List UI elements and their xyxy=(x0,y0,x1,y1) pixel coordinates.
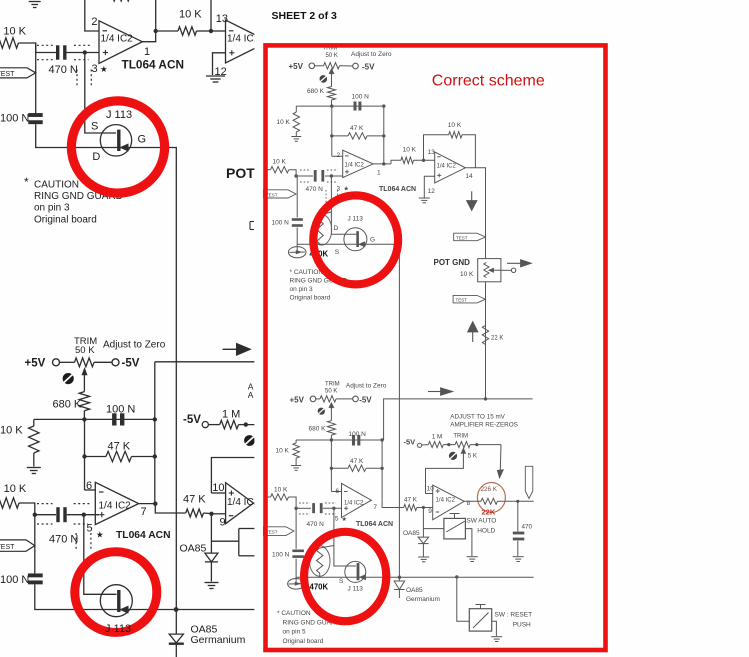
wire pot to -5V circle xyxy=(94,361,112,363)
svg-text:10: 10 xyxy=(212,482,224,494)
potentiometer 5K small xyxy=(455,442,470,448)
wire 5K wiper to pin10 small xyxy=(426,453,464,493)
wire chB line to trim net small xyxy=(384,399,533,440)
guard dotted chB small xyxy=(299,502,310,504)
red highlight circle chB JFET xyxy=(75,552,157,633)
guard ring dotted chA xyxy=(37,44,53,46)
terminal circle -5V chB xyxy=(112,359,119,366)
svg-text:TL064 ACN: TL064 ACN xyxy=(116,530,171,541)
svg-text:J 113: J 113 xyxy=(348,586,364,593)
red border of Correct scheme box xyxy=(266,45,606,650)
node input dot chB xyxy=(33,513,37,517)
node dot 47K left xyxy=(82,454,86,458)
transistor Q2 gate arrow xyxy=(121,606,128,613)
svg-text:22 K: 22 K xyxy=(491,336,503,342)
wire node to 10K gnd chB small xyxy=(295,440,297,443)
wire 470N to pin3 chA small xyxy=(325,175,343,177)
svg-text:* CAUTION: * CAUTION xyxy=(290,269,324,276)
transistor Q1 gate arrow xyxy=(121,144,128,151)
resistor 1M small xyxy=(428,442,443,448)
svg-text:Adjust to Zero: Adjust to Zero xyxy=(351,51,392,58)
wire diode to ground chB xyxy=(210,562,212,582)
transistor Q2 small bar xyxy=(357,563,360,580)
red highlight circle chA JFET small xyxy=(313,195,398,284)
svg-text:1/4 IC2: 1/4 IC2 xyxy=(101,34,134,45)
wire 1M to node xyxy=(239,424,264,426)
wire pin6 chB xyxy=(85,489,96,491)
minus pin6 small xyxy=(344,491,348,493)
minus pin13 small xyxy=(437,156,441,158)
svg-text:5: 5 xyxy=(87,523,93,535)
svg-text:470: 470 xyxy=(522,523,533,530)
op-amp U2c (1/4 IC2 pins 10,9,8) xyxy=(226,483,254,524)
svg-text:+5V: +5V xyxy=(25,358,46,370)
ground OA85 chB2 small xyxy=(418,556,429,558)
wire output U2d small xyxy=(465,168,485,399)
wire cap to pin3/op-amp xyxy=(67,52,100,54)
svg-text:100 N: 100 N xyxy=(0,113,29,125)
SW box top stem small xyxy=(454,514,456,519)
svg-text:1/4 IC2: 1/4 IC2 xyxy=(345,163,365,169)
plus pin12 small xyxy=(437,174,441,176)
resistor 470K chA small xyxy=(320,212,331,215)
svg-text:D: D xyxy=(92,151,100,163)
wire feedback loop U2d small xyxy=(424,135,449,161)
terminal circle +5V chB xyxy=(53,359,60,366)
transistor Q1 J113 channel bar xyxy=(117,130,120,151)
pot 5K wiper arrow small xyxy=(461,448,465,453)
capacitor 100N chA xyxy=(28,113,42,117)
wire 10K input to corner chB xyxy=(19,503,35,515)
svg-text:1/4 IC2: 1/4 IC2 xyxy=(437,164,457,170)
wire 680K to node chB small xyxy=(330,435,332,440)
resistor 47K feedback chB xyxy=(85,456,107,458)
svg-text:TL064 ACN: TL064 ACN xyxy=(122,58,185,72)
wire output jog down-right chB xyxy=(155,504,185,513)
resistor 10K series chA small xyxy=(401,157,414,163)
capacitor 470N chA xyxy=(56,45,59,59)
diode OA85 Germanium chB small xyxy=(398,577,400,581)
wire out vertical chA small xyxy=(383,106,385,164)
svg-text:*: * xyxy=(24,175,29,189)
svg-text:A: A xyxy=(248,390,254,400)
wire pin2 vertical + horizontal to op-amp U2a xyxy=(85,0,99,31)
svg-text:10 K: 10 K xyxy=(276,448,290,455)
wire input vertical chB small xyxy=(295,508,297,549)
capacitor 470N chB small xyxy=(312,503,315,513)
wire 470N to pin5 chB xyxy=(67,514,99,516)
plus pin5 small xyxy=(344,507,348,509)
svg-text:100 N: 100 N xyxy=(272,552,290,559)
svg-text:OA85: OA85 xyxy=(406,587,423,594)
wire output to 10K chA small xyxy=(373,163,391,165)
terminal circle -5V chA small xyxy=(353,63,359,69)
POT GND box small xyxy=(478,259,501,282)
op-amp U2b (1/4 IC2 pins 6,5,7) xyxy=(95,482,138,524)
node output dot chA small xyxy=(382,162,385,165)
node dot 47K right chA small xyxy=(382,134,385,137)
svg-text:TEST: TEST xyxy=(0,71,15,78)
svg-text:47 K: 47 K xyxy=(350,458,364,465)
node dot pin9 chB small xyxy=(422,506,425,509)
svg-text:6: 6 xyxy=(336,488,340,495)
wire pot out to circle small xyxy=(501,269,512,271)
svg-text:10 K: 10 K xyxy=(448,122,462,129)
TEST badge chB xyxy=(0,540,35,551)
ground 10K chA small xyxy=(291,136,301,138)
resistor 470K ellipse highlight chA small xyxy=(312,215,332,246)
switch SW RESET box small xyxy=(469,609,491,631)
pot wiper arrow chB small xyxy=(329,403,334,408)
minus sign pin13 xyxy=(229,30,234,32)
resistor 47K feedback chB small xyxy=(331,467,348,469)
resistor 680K chB small xyxy=(327,421,335,436)
node dot 470cap small xyxy=(516,500,519,503)
node pin3 junction dot xyxy=(83,50,87,54)
svg-text:1/4 IC2: 1/4 IC2 xyxy=(99,501,132,512)
transistor Q1 J113 circle xyxy=(100,125,131,156)
diode OA85 chB2 small xyxy=(418,537,429,544)
node pin13 dot xyxy=(209,29,213,33)
ground below OA85 chB xyxy=(205,582,219,584)
capacitor 470N chA small xyxy=(314,170,317,182)
node line chA small xyxy=(296,105,384,107)
gate arrow chB small xyxy=(360,575,366,580)
annotation arrow to 226K small xyxy=(499,445,502,470)
wire feedback corner to box chB2 xyxy=(211,458,263,494)
flow arrow annotation chB small xyxy=(428,391,441,393)
op-amp U2b small (pins 6,5,7) xyxy=(342,483,372,517)
resistor 10K input chA xyxy=(0,38,18,48)
svg-text:D: D xyxy=(334,225,339,232)
svg-text:100 N: 100 N xyxy=(349,431,367,438)
svg-text:13: 13 xyxy=(428,149,436,156)
svg-text:OA85: OA85 xyxy=(180,543,207,555)
wire inv vertical chB small xyxy=(330,440,332,492)
svg-text:10 K: 10 K xyxy=(3,26,26,38)
svg-text:PUSH: PUSH xyxy=(513,622,531,629)
svg-text:5 K: 5 K xyxy=(468,452,478,459)
transistor Q2 J113 circle xyxy=(100,585,132,617)
svg-text:680 K: 680 K xyxy=(307,88,325,95)
TEST badge mid small xyxy=(454,233,486,241)
gate arrow chA small xyxy=(359,242,365,247)
wire rail to SW RESET small xyxy=(457,577,470,621)
svg-text:SW : RESET: SW : RESET xyxy=(495,612,533,619)
svg-text:10 K: 10 K xyxy=(179,9,202,21)
red highlight circle chB JFET small xyxy=(304,532,386,621)
wire pin10 chB xyxy=(211,492,225,494)
wire pot to -5V chB small xyxy=(336,398,353,400)
rail chB small xyxy=(296,559,534,578)
svg-text:-5V: -5V xyxy=(359,395,372,404)
wire pin6 chB small xyxy=(331,491,341,493)
resistor 10K input chA small xyxy=(267,169,271,171)
switch SW AUTO HOLD box small xyxy=(444,518,466,539)
wire out vertical chB small xyxy=(381,440,383,500)
node input dot chA small xyxy=(294,174,297,177)
node dot 680K chA small xyxy=(330,104,333,107)
svg-text:J 113: J 113 xyxy=(105,623,131,635)
wire S lead JFET Q2 xyxy=(84,515,117,595)
op-amp U2d small (pins 13,12,14) xyxy=(435,152,466,183)
node dot 47K right xyxy=(153,454,157,458)
plus pin3 small xyxy=(345,171,349,173)
svg-text:Original board: Original board xyxy=(34,215,97,226)
node dot 47K left chA small xyxy=(330,134,333,137)
resistor 22K vertical small xyxy=(482,325,488,344)
wire input vertical chA small xyxy=(296,176,298,218)
svg-text:-5V: -5V xyxy=(362,62,375,71)
svg-text:10 K: 10 K xyxy=(403,146,417,153)
node dot pin3-D chA small xyxy=(330,174,333,177)
svg-text:470 N: 470 N xyxy=(306,186,324,193)
ground (top, below 10K of node network) xyxy=(29,1,41,3)
wire node line to 10K gnd leg xyxy=(33,419,35,426)
svg-text:100 N: 100 N xyxy=(0,574,29,586)
wire pot to -5V chA small xyxy=(340,65,353,67)
svg-text:S: S xyxy=(339,578,344,585)
plus sign pin12 xyxy=(229,52,234,54)
svg-text:47 K: 47 K xyxy=(404,497,418,504)
resistor 226K/22K small xyxy=(481,498,498,504)
svg-text:13: 13 xyxy=(216,13,228,25)
white panel covering right side / crop of left schematic xyxy=(254,0,749,657)
svg-text:6: 6 xyxy=(86,480,92,492)
pot 10K inside box small xyxy=(484,263,489,278)
svg-text:9: 9 xyxy=(220,517,226,529)
ellipse highlight 226K small xyxy=(477,483,505,513)
resistor 47K second stage chB xyxy=(186,509,204,517)
svg-text:10 K: 10 K xyxy=(4,483,27,495)
svg-text:47 K: 47 K xyxy=(108,441,131,453)
wire 470 to gnd small xyxy=(517,541,519,556)
svg-text:10 K: 10 K xyxy=(273,159,287,166)
wire inv vertical x=84.5 chB xyxy=(84,419,86,490)
node dot right chB small xyxy=(380,438,383,441)
SW RESET top stem small xyxy=(480,605,482,609)
guard dotted chB xyxy=(37,503,53,505)
wire 47K to pin9 node xyxy=(204,512,212,515)
wire bracket to SW box small xyxy=(423,528,444,530)
wire pin12 to gnd small xyxy=(424,176,434,197)
wire 22K to node small xyxy=(498,500,534,502)
svg-text:7: 7 xyxy=(373,504,377,511)
svg-text:S: S xyxy=(335,249,340,256)
svg-text:OA85: OA85 xyxy=(403,530,420,537)
svg-text:TEST: TEST xyxy=(456,235,468,240)
svg-text:TL064 ACN: TL064 ACN xyxy=(379,186,416,193)
resistor 10K feedback U2d small xyxy=(449,132,462,138)
transistor Q2 J113 channel bar xyxy=(117,590,120,612)
svg-text:Adjust to Zero: Adjust to Zero xyxy=(346,383,387,390)
svg-text:1/4 IC2: 1/4 IC2 xyxy=(436,498,456,504)
svg-text:3: 3 xyxy=(92,63,98,75)
svg-text:470 N: 470 N xyxy=(49,64,78,76)
svg-text:Correct scheme: Correct scheme xyxy=(432,73,545,90)
wire 680K to node line xyxy=(83,411,85,420)
svg-text:2: 2 xyxy=(91,16,97,28)
svg-text:J 113: J 113 xyxy=(348,215,364,222)
wire D vertical chB small xyxy=(334,508,356,566)
terminal circle +5V chA small xyxy=(309,63,315,69)
terminal circle pot out small xyxy=(511,268,515,272)
resistor 10K gnd chB small xyxy=(293,443,299,458)
wire input node to cap 470N xyxy=(36,52,56,54)
resistor 680K chA small xyxy=(328,87,336,101)
wire input node to 470N chB xyxy=(35,514,56,516)
svg-text:100 N: 100 N xyxy=(272,220,290,227)
wire 10K to node xyxy=(197,30,212,32)
svg-text:★: ★ xyxy=(342,516,347,523)
node output dot chB xyxy=(153,502,157,506)
svg-text:-5V: -5V xyxy=(122,358,140,370)
resistor 470K ellipse highlight chB small xyxy=(309,546,330,577)
svg-text:22K: 22K xyxy=(482,508,496,517)
capacitor 470 small xyxy=(513,532,525,535)
test point crossed circle 5K small xyxy=(449,452,457,460)
ground pin12 xyxy=(206,75,225,77)
svg-text:Original board: Original board xyxy=(290,295,331,302)
minus sign pin2 xyxy=(103,30,108,32)
terminal circle -5V chB2 small xyxy=(418,443,422,447)
wire 470N to pin5 chB small xyxy=(323,507,342,509)
minus pin2 small xyxy=(345,155,349,157)
node dot node-line/output-vert xyxy=(153,417,157,421)
node dot pin13 small xyxy=(422,159,425,162)
minus sign pin9 xyxy=(229,515,234,517)
svg-text:on pin 3: on pin 3 xyxy=(290,286,314,293)
svg-text:680 K: 680 K xyxy=(53,398,82,410)
resistor 10K input chB small xyxy=(267,496,271,498)
wire node to pin 13 xyxy=(211,30,226,32)
flow arrow annotation chB xyxy=(223,348,238,350)
node line chB horizontal xyxy=(34,418,155,420)
svg-text:1 M: 1 M xyxy=(432,434,443,441)
ground below 10K chB xyxy=(27,467,41,469)
node dot rail/long-vertical xyxy=(174,607,179,612)
plus sign pin5 xyxy=(99,514,104,516)
svg-text:+5V: +5V xyxy=(290,395,305,404)
potentiometer 50K chB zigzag xyxy=(75,358,95,367)
wire inv vertical chA small xyxy=(331,106,333,156)
svg-text:+5V: +5V xyxy=(289,62,304,71)
wire output U2c small xyxy=(464,500,481,502)
svg-text:12: 12 xyxy=(428,188,436,195)
wire D vertical chA small xyxy=(331,176,356,234)
svg-text:on pin 5: on pin 5 xyxy=(283,629,307,636)
svg-text:SHEET 2 of 3: SHEET 2 of 3 xyxy=(272,10,338,22)
pot wiper arrow chB xyxy=(82,369,87,375)
svg-text:G: G xyxy=(370,237,375,244)
op-amp U2a (1/4 IC2 pins 2,3,1) xyxy=(99,21,142,64)
wire rail chA to long vertical xyxy=(121,148,177,610)
test point crossed circle cut at box edge xyxy=(244,435,255,446)
plus pin10 small xyxy=(436,490,440,492)
node dot 680K/node-line xyxy=(82,417,86,421)
svg-text:1/4 IC2: 1/4 IC2 xyxy=(344,501,364,507)
TEST badge input chA small xyxy=(264,190,297,198)
plus sign pin10 xyxy=(229,492,234,494)
wire pin9 chB xyxy=(212,513,226,515)
ground 10K chB small xyxy=(291,465,301,467)
resistor 1M chB xyxy=(220,420,239,428)
red highlight circle chA JFET xyxy=(71,101,164,193)
svg-text:* CAUTION: * CAUTION xyxy=(277,610,311,617)
op-amp U2d (1/4 IC2 pins 13,12,14) xyxy=(226,20,269,63)
svg-text:POT GND: POT GND xyxy=(434,258,471,267)
resistor 680K chB xyxy=(79,392,89,411)
node dot pin5-D chB small xyxy=(332,507,335,510)
op-amp U2a small (pins 2,3,1) xyxy=(343,150,373,177)
node input dot chB small xyxy=(294,507,297,510)
wire feedback vertical x=211 xyxy=(210,0,212,31)
svg-text:Germanium: Germanium xyxy=(406,596,440,603)
node dot 680K chB small xyxy=(330,438,333,441)
node dot rail SW RESET small xyxy=(455,575,458,578)
capacitor 100N chB input xyxy=(28,573,43,577)
wire input to 470N chB small xyxy=(296,507,311,509)
svg-text:226 K: 226 K xyxy=(481,486,498,493)
wire 10K to ground chB xyxy=(33,453,35,467)
ground SW RESET small xyxy=(491,636,502,638)
TEST badge input chB small xyxy=(264,527,295,536)
svg-text:10 K: 10 K xyxy=(0,425,23,437)
wire cap 100N to rail corner xyxy=(36,124,118,147)
resistor 47K feedback chA (bottom bumps at top edge) xyxy=(109,0,130,1)
wire +5V to pot chA small xyxy=(315,65,324,67)
node dot 5K right small xyxy=(475,443,478,446)
wire -5V to 1M small xyxy=(422,444,429,446)
svg-text:Original board: Original board xyxy=(283,638,324,645)
svg-text:100 N: 100 N xyxy=(106,404,135,416)
node dot right chA small xyxy=(382,104,385,107)
svg-text:AMPLIFIER RE-ZEROS: AMPLIFIER RE-ZEROS xyxy=(450,421,518,428)
wire pin12 to ground xyxy=(213,53,226,75)
wire node to 10K gnd chA small xyxy=(295,106,297,112)
transistor Q1 small circle xyxy=(344,228,367,251)
svg-text:Adjust to Zero: Adjust to Zero xyxy=(103,340,166,351)
svg-text:★: ★ xyxy=(96,530,104,540)
capacitor 100N feedback chB xyxy=(112,413,116,425)
ground pin12 small xyxy=(419,197,430,199)
svg-text:TEST: TEST xyxy=(0,544,15,551)
svg-text:50 K: 50 K xyxy=(75,345,95,356)
svg-text:10 K: 10 K xyxy=(277,119,291,126)
down arrow annotation small xyxy=(471,191,473,201)
op-amp U2c small (pins 10,9,8) xyxy=(433,485,465,520)
resistor 47K feedback chA small xyxy=(332,135,348,137)
node dot rail/gate-vert chB small xyxy=(398,576,401,579)
node dot 1M xyxy=(244,422,248,426)
wire apex to output dot chB xyxy=(139,503,156,505)
resistor 10K input chB xyxy=(0,498,19,508)
resistor 10K gnd chA small xyxy=(293,112,299,132)
test point crossed circle chA small xyxy=(320,75,328,83)
svg-text:470K: 470K xyxy=(310,583,329,592)
svg-text:1: 1 xyxy=(377,170,381,177)
ground 470 small xyxy=(513,556,524,558)
node dot 47K left chB small xyxy=(330,467,333,470)
node dot chA-col/chB-line small xyxy=(484,397,487,400)
svg-text:1: 1 xyxy=(144,46,150,58)
transistor Q1 small bar xyxy=(356,231,359,247)
guard dotted chA small xyxy=(300,169,311,171)
svg-text:S: S xyxy=(91,121,98,133)
svg-text:14: 14 xyxy=(465,173,473,180)
wire output line y=361.8 to box xyxy=(155,361,264,363)
resistor 470K chB small xyxy=(320,546,334,549)
